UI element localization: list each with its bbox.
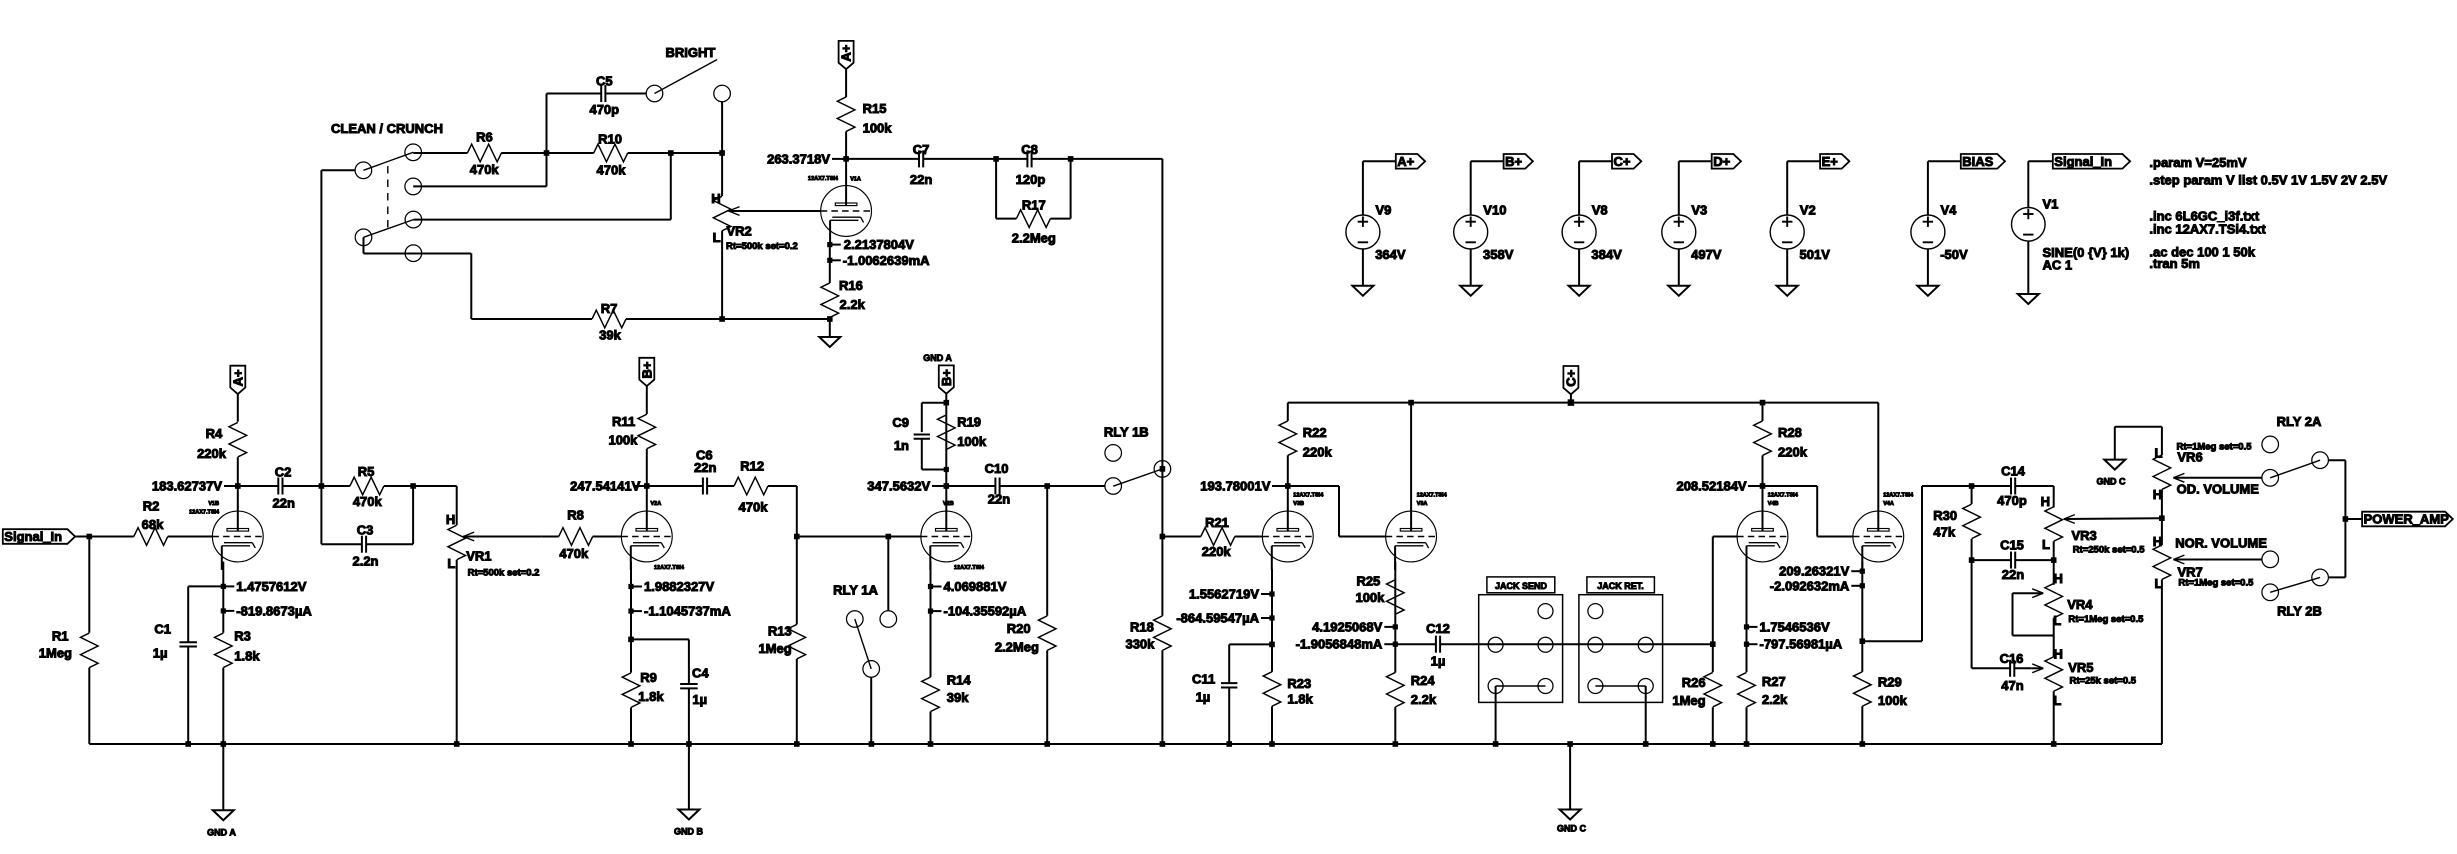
wire cathode chain V2A [630,611,632,673]
node -864.59547uA [1271,594,1273,618]
connector JACK RET. [1587,577,1655,593]
flag C+ (bus) [1563,366,1578,394]
junction R26 bus [1710,741,1716,747]
junction R21 tap [1160,534,1166,540]
potentiometer VR7 [2153,545,2171,580]
svg-text:L: L [2042,537,2050,552]
node 1.9882327V [630,562,632,587]
svg-text:R28: R28 [1778,425,1802,440]
node input junction [87,534,93,540]
wire VR5 low to bus [2053,691,2055,744]
svg-text:2.2n: 2.2n [352,554,378,569]
junction C4 bus [686,741,692,747]
svg-text:12AX7.TSi4: 12AX7.TSi4 [1768,493,1799,499]
ground (V4) [1917,286,1938,296]
ground (V10) [1460,286,1481,296]
svg-text:358V: 358V [1483,247,1514,262]
svg-text:-50V: -50V [1940,247,1968,262]
svg-text:GND B: GND B [674,827,704,837]
node -1.1045737mA [630,587,632,612]
junction R27 bus [1744,741,1750,747]
svg-text:CLEAN / CRUNCH: CLEAN / CRUNCH [331,121,443,136]
switch S1 lever [363,152,413,170]
wire V4B plate to V4A grid [1763,485,1818,487]
svg-text:193.78001V: 193.78001V [1200,479,1270,494]
svg-text:-797.56981µA: -797.56981µA [1760,637,1843,652]
wire bottom bus left [89,743,1047,745]
svg-text:470p: 470p [589,102,619,117]
svg-text:1.8k: 1.8k [234,649,260,664]
svg-text:E+: E+ [1822,154,1839,169]
wiper arrow VR5 [2032,664,2043,668]
svg-text:R20: R20 [1007,621,1031,636]
svg-text:Rt=1Meg set=0.5: Rt=1Meg set=0.5 [2177,442,2253,453]
svg-text:Rt=500k set=0.2: Rt=500k set=0.2 [726,241,798,252]
node 193.78001V [1285,483,1291,489]
tube U V1A (12AX7) [821,186,872,237]
svg-text:22n: 22n [694,460,716,475]
node 1.4757612V [222,562,224,587]
resistor R7 [471,318,592,320]
svg-text:2.2k: 2.2k [840,297,866,312]
svg-text:1.8k: 1.8k [638,689,664,704]
wire R12 to grid row [796,486,798,537]
svg-text:2.2k: 2.2k [1411,692,1437,707]
node 247.54141V [644,483,650,489]
svg-text:263.3718V: 263.3718V [767,151,830,166]
svg-text:220k: 220k [1303,444,1333,459]
voltage source V8 [1578,161,1580,215]
svg-text:384V: 384V [1591,247,1622,262]
tube U V3B (12AX7) [1262,511,1313,562]
svg-text:C11: C11 [1192,672,1215,687]
svg-text:4.069881V: 4.069881V [944,579,1007,594]
svg-text:Signal_In: Signal_In [4,529,62,544]
svg-text:47k: 47k [1933,525,1955,540]
resistor R28 [1762,403,1764,421]
svg-text:RLY 1A: RLY 1A [833,583,878,598]
node 263.3718V [843,156,849,162]
svg-text:.step param V list 0.5V 1V 1.5: .step param V list 0.5V 1V 1.5V 2V 2.5V [2149,172,2387,187]
wiper arrow VR1 [463,532,474,536]
junction C8 out [1068,156,1074,162]
resistor R21 [1162,536,1200,538]
svg-text:-2.092632mA: -2.092632mA [1770,578,1850,593]
wire to VR1 [413,485,457,487]
svg-text:100k: 100k [863,121,893,136]
svg-text:R5: R5 [358,464,375,479]
capacitor C7 [846,158,919,160]
svg-text:H: H [2153,534,2162,549]
svg-text:Rt=1Meg set=0.5: Rt=1Meg set=0.5 [2178,578,2254,589]
svg-text:VR5: VR5 [2068,660,2093,675]
svg-text:BIAS: BIAS [1962,154,1993,169]
svg-text:A+: A+ [1397,154,1414,169]
svg-text:Rt=500k set=0.2: Rt=500k set=0.2 [468,568,540,579]
svg-text:V2A: V2A [651,501,662,507]
flag B+ (V2A supply) [639,358,654,386]
flag POWER_AMP [2362,512,2453,527]
wire plate V3A [1410,403,1412,512]
resistor R22 [1287,403,1289,421]
svg-text:V1: V1 [2043,197,2059,212]
node 1.7546536V [1746,562,1748,627]
svg-text:C+: C+ [1614,154,1631,169]
voltage source V10 [1470,161,1472,215]
svg-text:RLY 2B: RLY 2B [2277,603,2322,618]
switch BRIGHT circle B [714,85,731,102]
wire C11 branch [1229,643,1272,645]
node 4.069881V [930,562,932,587]
junction B+ R19/C9 top [944,400,950,406]
svg-text:R14: R14 [947,673,972,688]
svg-text:1.7546536V: 1.7546536V [1760,619,1830,634]
ground (V8) [1569,286,1590,296]
svg-text:2.2Meg: 2.2Meg [1012,231,1056,246]
switch S2 throw 2 [405,245,422,262]
svg-text:Signal_In: Signal_In [2054,154,2112,169]
svg-text:247.54141V: 247.54141V [570,479,640,494]
tube U V4B (12AX7) [1737,511,1788,562]
capacitor C12 [1395,643,1436,645]
ground (V2) [1777,286,1798,296]
wire [2345,518,2362,520]
resistor R29 [1861,641,1863,672]
wire [501,152,546,154]
voltage source V3 [1678,161,1680,215]
svg-text:R2: R2 [143,499,160,514]
switch S1 common [355,162,372,179]
potentiometer VR4 [2045,583,2063,618]
svg-text:12AX7.TSi4: 12AX7.TSi4 [1417,493,1448,499]
node C2/R5 junction [319,483,325,489]
potentiometer VR1 [448,525,466,560]
node -819.8673uA [222,586,224,611]
svg-text:R21: R21 [1205,515,1229,530]
svg-text:39k: 39k [947,690,969,705]
svg-text:347.5632V: 347.5632V [867,479,930,494]
wire plate V4B [1762,486,1764,512]
wiper arrow VR4 (tied to low) [2032,589,2043,593]
junction R29 bus [1860,741,1866,747]
capacitor C16 [1972,667,2011,669]
flag A+ [1363,160,1396,162]
resistor R9 [622,673,640,708]
flag A+ (V1B supply) [230,366,245,394]
resistor R15 [845,69,847,97]
junction C15 left [1969,557,1975,563]
ground GND B [688,744,690,810]
svg-text:470k: 470k [470,162,500,177]
ground (V1) [2018,294,2039,304]
svg-text:22n: 22n [910,172,932,187]
svg-text:C15: C15 [2000,537,2024,552]
svg-text:D+: D+ [1713,154,1730,169]
svg-text:12AX7.TSi4: 12AX7.TSi4 [654,565,685,571]
svg-text:.inc 12AX7.TSi4.txt: .inc 12AX7.TSi4.txt [2149,221,2266,236]
svg-text:R25: R25 [1356,573,1380,588]
svg-text:209.26321V: 209.26321V [1779,564,1849,579]
svg-text:V3A: V3A [1417,501,1428,507]
ground (V9) [1352,286,1373,296]
wire cathode V3B [1271,618,1273,644]
svg-text:R26: R26 [1682,675,1706,690]
svg-text:R24: R24 [1411,673,1436,688]
svg-text:V1A: V1A [850,176,861,182]
node -104.35592uA [930,587,932,612]
wire [671,152,722,154]
potentiometer VR2 [713,196,731,231]
wire cathode V4A [1861,586,1863,641]
resistor R25 [1387,580,1405,615]
mechanical link (dashed) [387,166,389,231]
resistor R20 [1046,486,1048,616]
svg-text:100k: 100k [957,434,987,449]
voltage source V2 [1786,161,1788,215]
capacitor C8 [996,158,1027,160]
svg-text:R13: R13 [768,623,792,638]
capacitor C11 [1228,644,1230,683]
wire plate V2A [646,486,648,512]
wire S2 common to R7 [363,237,365,253]
svg-text:-1.9056848mA: -1.9056848mA [1296,637,1383,652]
junction R20 top [1044,483,1050,489]
svg-text:C10: C10 [985,461,1009,476]
svg-text:POWER_AMP: POWER_AMP [2364,512,2450,527]
svg-text:B+: B+ [939,369,954,386]
switch S1 throw 2 [405,178,422,195]
node 183.62737V [235,483,241,489]
wire jack ret sleeve to bus [1645,686,1647,744]
flag E+ [1787,160,1820,162]
node -1.9056848mA [1394,627,1396,644]
resistor R8 [542,536,559,538]
svg-text:C3: C3 [357,523,374,538]
junction RLY1A tap [886,534,892,540]
flag D+ [1679,160,1712,162]
svg-text:RLY 2A: RLY 2A [2277,414,2322,429]
svg-text:JACK SEND: JACK SEND [1495,581,1548,591]
svg-text:L: L [713,230,721,245]
svg-text:47n: 47n [2001,678,2023,693]
svg-text:V10: V10 [1483,202,1506,217]
svg-text:39k: 39k [599,328,621,343]
flag B+ (V2B supply) [939,365,954,393]
capacitor C5 [546,94,548,154]
wire to RLY1B [1047,485,1105,487]
junction C11 bus [1226,741,1232,747]
wire C16 feed [1971,560,1973,668]
wiper arrow VR6 [2173,473,2184,477]
svg-text:364V: 364V [1375,247,1406,262]
svg-text:470k: 470k [739,499,769,514]
resistor R27 [1746,644,1748,672]
svg-text:1Meg: 1Meg [1672,693,1705,708]
svg-text:220k: 220k [197,446,227,461]
switch S1 throw 1 [405,144,422,161]
relay RLY 2B contact 3 [2262,584,2279,601]
wire VR6 low [2161,490,2163,546]
svg-text:V4A: V4A [1883,501,1894,507]
svg-text:V2: V2 [1800,202,1816,217]
svg-text:100k: 100k [1878,693,1908,708]
svg-text:470p: 470p [1997,493,2027,508]
resistor R1 [88,537,90,633]
svg-text:GND C: GND C [2097,477,2127,487]
switch S2 lever [364,220,414,238]
svg-text:V3: V3 [1691,202,1707,217]
svg-text:4.1925068V: 4.1925068V [1312,619,1382,634]
wire jack send sleeve to bus [1495,686,1497,744]
svg-text:1.9882327V: 1.9882327V [644,579,714,594]
wire grid V2B [797,536,921,538]
svg-text:C7: C7 [913,142,930,157]
junction R30 top [1969,483,1975,489]
junction R9 bus [628,741,634,747]
capacitor C9 [922,402,947,404]
wire signal through jacks [1496,643,1713,645]
junction VR5 bus [2051,741,2057,747]
svg-text:A+: A+ [230,369,245,386]
junction VR2/R7 [719,316,725,322]
wire rail down to R18 [1161,461,1163,616]
svg-text:B+: B+ [1505,154,1522,169]
junction R26/grid [1710,641,1716,647]
capacitor C2 [238,485,278,487]
flag Signal_In (input) [3,529,75,544]
wire plate V3B [1287,486,1289,512]
wiper arrow VR3 [2064,515,2075,519]
wire [75,536,134,538]
svg-text:V8: V8 [1592,202,1608,217]
svg-text:220k: 220k [1202,544,1232,559]
svg-text:-1.0062639mA: -1.0062639mA [843,253,930,268]
resistor R30 [1971,486,1973,504]
svg-text:L: L [2155,446,2163,461]
junction R13 bus [794,741,800,747]
switch S2 common [355,229,372,246]
tube U V3A (12AX7) [1386,511,1437,562]
resistor R2 [134,528,168,546]
svg-text:C5: C5 [596,74,613,89]
wire [321,485,350,487]
svg-text:RLY 1B: RLY 1B [1104,425,1149,440]
junction C4 branch [628,637,634,643]
svg-text:BRIGHT: BRIGHT [665,45,715,60]
resistor R11 [646,386,648,414]
junction R20 bus [1044,741,1050,747]
junction C+ flag [1568,399,1575,406]
junction R14 bus [928,741,934,747]
svg-text:470k: 470k [597,163,627,178]
tube U V1B (12AX7) [212,511,263,562]
svg-text:C14: C14 [2001,464,2026,479]
flag C+ [1579,160,1612,162]
node 4.1925068V [1394,562,1396,627]
svg-text:R7: R7 [601,301,618,316]
svg-text:12AX7.TSi4: 12AX7.TSi4 [808,176,839,182]
svg-text:Rt=1Meg set=0.5: Rt=1Meg set=0.5 [2068,614,2144,625]
svg-text:V1B: V1B [208,501,219,507]
junction bright/R10 [719,150,725,156]
flag BIAS [1928,160,1961,162]
svg-text:2.2Meg: 2.2Meg [995,639,1039,654]
svg-text:VR3: VR3 [2072,528,2097,543]
wire C14 to VR3 [2053,486,2055,508]
junction C7/C8/R17 [993,156,999,162]
svg-text:H: H [2054,571,2063,586]
svg-text:1n: 1n [894,438,909,453]
resistor R10 [547,152,594,154]
svg-text:R22: R22 [1303,425,1327,440]
svg-text:C+: C+ [1564,369,1579,386]
node -797.56981uA [1746,627,1748,644]
svg-text:OD. VOLUME: OD. VOLUME [2177,482,2260,497]
wire jack send shunt [1496,685,1546,687]
svg-text:R30: R30 [1933,508,1957,523]
svg-text:R29: R29 [1878,674,1902,689]
svg-text:GND C: GND C [1557,824,1587,834]
junction R13 top [794,534,800,540]
wire switch common feed [320,170,322,486]
svg-text:100k: 100k [608,433,638,448]
svg-text:12AX7.TSi4: 12AX7.TSi4 [1293,493,1324,499]
junction R16/gnd [827,316,833,322]
node 208.52184V [1760,483,1766,489]
node R5/C3 junction [410,483,416,489]
junction R29 top [1860,638,1866,644]
svg-text:H: H [711,191,720,206]
junction VR1 bus [454,741,460,747]
relay RLY 1B contact 3 (on rail) [1154,461,1171,478]
svg-text:.param V=25mV: .param V=25mV [2149,155,2247,170]
flag B+ [1471,160,1504,162]
junction V3A plate bus [1408,400,1414,406]
svg-text:V4B: V4B [1768,501,1779,507]
svg-text:R1: R1 [52,629,69,644]
relay RLY 2A contact 2 (wiper) [2262,470,2279,487]
svg-text:2.2137804V: 2.2137804V [844,237,914,252]
wire VR2 low [721,231,723,319]
wire C4 branch [631,638,689,640]
junction RLY1A bus [869,741,875,747]
junction C1 bus [185,741,191,747]
svg-text:1.8k: 1.8k [1287,691,1313,706]
junction R10 out [668,150,674,156]
svg-text:1.4757612V: 1.4757612V [236,579,306,594]
svg-text:V2B: V2B [943,501,954,507]
svg-text:R3: R3 [234,629,251,644]
resistor R12 [734,477,768,495]
svg-text:12AX7.TSi4: 12AX7.TSi4 [954,565,985,571]
svg-text:R15: R15 [863,101,887,116]
svg-text:501V: 501V [1800,247,1831,262]
svg-text:12AX7.TSi4: 12AX7.TSi4 [189,510,220,516]
wire [722,318,830,320]
svg-text:470k: 470k [559,546,589,561]
junction R23 bus [1269,741,1275,747]
capacitor C6 [647,485,703,487]
svg-text:183.62737V: 183.62737V [152,479,222,494]
capacitor C10 [946,485,995,487]
svg-text:AC 1: AC 1 [2043,258,2073,273]
relay RLY 1B lever [1113,469,1162,486]
ground GND A [222,744,224,810]
wire C+ bus [1288,402,1879,404]
switch S2 throw 1 [405,211,422,228]
svg-text:R10: R10 [598,132,622,147]
ground (V1A cathode) [829,319,831,337]
